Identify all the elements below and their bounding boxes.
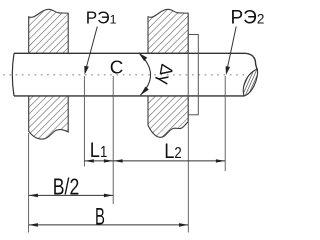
svg-text:C: C bbox=[110, 57, 124, 78]
svg-text:B: B bbox=[95, 204, 105, 230]
svg-text:Δγ: Δγ bbox=[154, 63, 177, 87]
svg-text:B/2: B/2 bbox=[53, 174, 79, 200]
svg-text:РЭ2: РЭ2 bbox=[231, 8, 265, 29]
